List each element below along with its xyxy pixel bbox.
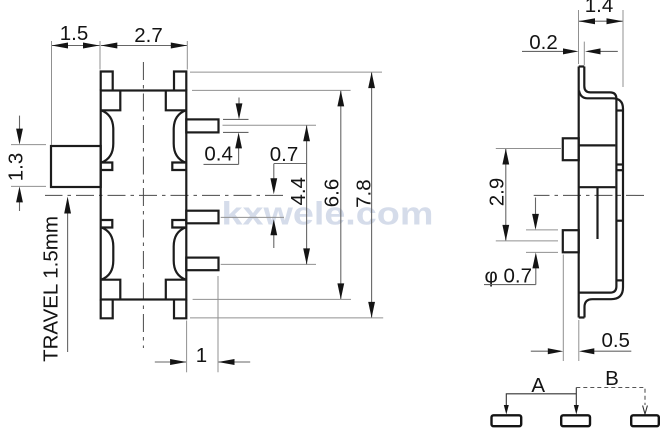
cover tab tick 4 bbox=[616, 220, 623, 222]
svg-text:1.5: 1.5 bbox=[60, 22, 89, 45]
svg-text:0.2: 0.2 bbox=[529, 31, 558, 54]
arrow 2.7 right bbox=[171, 43, 188, 49]
extension line tab bottom right bbox=[190, 317, 383, 319]
actuator stem side bbox=[563, 138, 579, 160]
extension line terminal3 center bbox=[221, 263, 316, 265]
0.4 dim line top bbox=[223, 118, 249, 120]
extension line stub face bbox=[578, 320, 580, 361]
extension line terminal end bottom bbox=[217, 276, 219, 372]
0.4 underline leader bbox=[204, 163, 239, 165]
extension line tab top right bbox=[190, 71, 382, 73]
svg-text:φ 0.7: φ 0.7 bbox=[485, 265, 533, 288]
top-left mounting tab bbox=[101, 72, 113, 91]
body parting line lower bbox=[580, 186, 616, 188]
switch body outline bbox=[101, 91, 187, 300]
svg-text:B: B bbox=[605, 367, 619, 390]
bracket A solid bbox=[506, 388, 576, 407]
dimension line 2.7 bbox=[101, 45, 188, 47]
lower-left spring foot bbox=[102, 220, 113, 228]
extension line terminal2 center bbox=[221, 216, 284, 218]
phi0.7 lower arrow bbox=[535, 256, 537, 285]
lower-right contact spring curve bbox=[174, 228, 186, 280]
extension line body bottom right bbox=[193, 298, 351, 300]
extension line body right bottom bbox=[186, 321, 188, 373]
cover outer surface: top, right side, bottom wrap, bottom stub bbox=[579, 91, 623, 318]
horizontal centerline of front view bbox=[45, 194, 283, 196]
bottom-left mounting tab bbox=[101, 300, 113, 319]
phi0.7 pin top tick bbox=[526, 229, 558, 231]
svg-text:0.7: 0.7 bbox=[270, 143, 299, 166]
bracket B dashed bbox=[576, 388, 645, 406]
side view centerline bbox=[534, 194, 644, 196]
phi0.7 underline leader bbox=[484, 284, 536, 286]
cover tab tick 2 bbox=[616, 163, 623, 165]
travel leader arrow to centerline bbox=[67, 210, 69, 352]
0.4 dim line bottom bbox=[223, 131, 249, 133]
arrow 2.7 left bbox=[101, 43, 118, 49]
extension line actuator center bbox=[496, 148, 561, 150]
phi0.7 upper arrow bbox=[535, 198, 537, 227]
arrow 1.5 right bbox=[83, 43, 100, 49]
dimension line 1.4 bbox=[579, 20, 624, 22]
arrow B pad3 (open) bbox=[643, 406, 648, 415]
cover top hook cap bbox=[579, 65, 585, 67]
top-left inner step bbox=[101, 91, 121, 111]
extension line pin face bbox=[562, 255, 564, 362]
svg-text:1: 1 bbox=[196, 344, 207, 367]
terminal 3 bbox=[186, 258, 218, 271]
metal cover left face / body left edge / bottom stub bbox=[578, 67, 580, 318]
dimension line 1 left arrow bbox=[155, 361, 186, 363]
dimension line 1.5 bbox=[52, 45, 100, 47]
bottom-right mounting tab bbox=[174, 300, 186, 319]
dimension line 7.8 bbox=[371, 72, 373, 318]
extension line body left top bbox=[99, 41, 101, 70]
terminal 1 bbox=[186, 119, 218, 132]
extension line cover right top bbox=[622, 10, 624, 87]
bottom-right inner step bbox=[166, 280, 187, 300]
arrow A pad2 bbox=[574, 405, 579, 415]
extension tick knob top bbox=[11, 144, 46, 146]
cover top hook inner and body right edge and body bottom bbox=[580, 67, 617, 293]
svg-text:2.9: 2.9 bbox=[486, 178, 509, 207]
vertical centerline of front view bbox=[142, 62, 144, 348]
cover tab tick 1 bbox=[616, 109, 623, 111]
dimension 1.3 lower arrow bbox=[19, 190, 21, 211]
arrow 1.5 left bbox=[52, 43, 69, 49]
pad 1 bbox=[492, 415, 522, 426]
dimension line 2.9 bbox=[505, 149, 507, 241]
bottom-left inner step bbox=[101, 280, 121, 300]
0.2 left arrow bbox=[522, 50, 575, 52]
pad 2 bbox=[561, 415, 590, 426]
upper-left contact spring curve bbox=[102, 111, 114, 163]
extension line terminal1 center bbox=[223, 124, 317, 126]
extension tick knob bottom bbox=[11, 185, 46, 187]
0.4 lower arrow bbox=[238, 136, 240, 164]
svg-text:2.7: 2.7 bbox=[134, 24, 163, 47]
svg-text:TRAVEL 1.5mm: TRAVEL 1.5mm bbox=[40, 216, 63, 362]
top-right inner step bbox=[166, 91, 187, 111]
body parting line upper bbox=[580, 144, 616, 146]
actuator knob bbox=[51, 146, 101, 187]
svg-text:0.4: 0.4 bbox=[204, 143, 233, 166]
extension line pin center bbox=[496, 240, 558, 242]
phi0.7 pin bottom tick bbox=[526, 251, 558, 253]
svg-text:0.5: 0.5 bbox=[601, 329, 630, 352]
upper-right contact spring curve bbox=[174, 111, 186, 163]
side pin boss bbox=[563, 230, 579, 252]
lower-left contact spring curve bbox=[102, 228, 114, 280]
extension line cover inner top bbox=[583, 42, 585, 65]
dimension line 4.4 bbox=[306, 125, 308, 264]
dimension line 6.6 bbox=[340, 90, 342, 299]
lower-right spring foot bbox=[172, 220, 186, 228]
0.4 upper arrow bbox=[238, 98, 240, 117]
upper-left spring foot bbox=[102, 163, 113, 171]
0.2 right arrow bbox=[588, 50, 618, 52]
0.7 upper arrow bbox=[273, 164, 275, 192]
0.7 lower arrow bbox=[273, 223, 275, 248]
svg-text:1.4: 1.4 bbox=[585, 0, 614, 17]
0.5 left arrow bbox=[531, 350, 560, 352]
svg-text:1.3: 1.3 bbox=[5, 153, 28, 182]
svg-text:6.6: 6.6 bbox=[321, 179, 344, 208]
0.7 elbow leader bbox=[274, 163, 307, 165]
extension line body top right bbox=[192, 89, 351, 91]
cover tab tick 3 bbox=[616, 169, 623, 171]
extension line cover left top bbox=[578, 10, 580, 64]
dimension 1.3 upper arrow bbox=[19, 116, 21, 141]
top-right mounting tab bbox=[174, 72, 186, 91]
bottom stub cap bbox=[579, 316, 585, 318]
dimension line 1 right arrow bbox=[218, 361, 250, 363]
terminal 2 bbox=[186, 211, 218, 224]
internal terminal line bbox=[596, 187, 598, 239]
extension line body right top bbox=[186, 41, 188, 70]
extension line knob left bbox=[51, 41, 53, 145]
cover tab tick 5 bbox=[616, 279, 623, 281]
0.5 right arrow bbox=[582, 350, 631, 352]
upper-right spring foot bbox=[172, 163, 186, 171]
pad 3 bbox=[631, 415, 659, 426]
arrow A pad1 bbox=[504, 405, 509, 415]
